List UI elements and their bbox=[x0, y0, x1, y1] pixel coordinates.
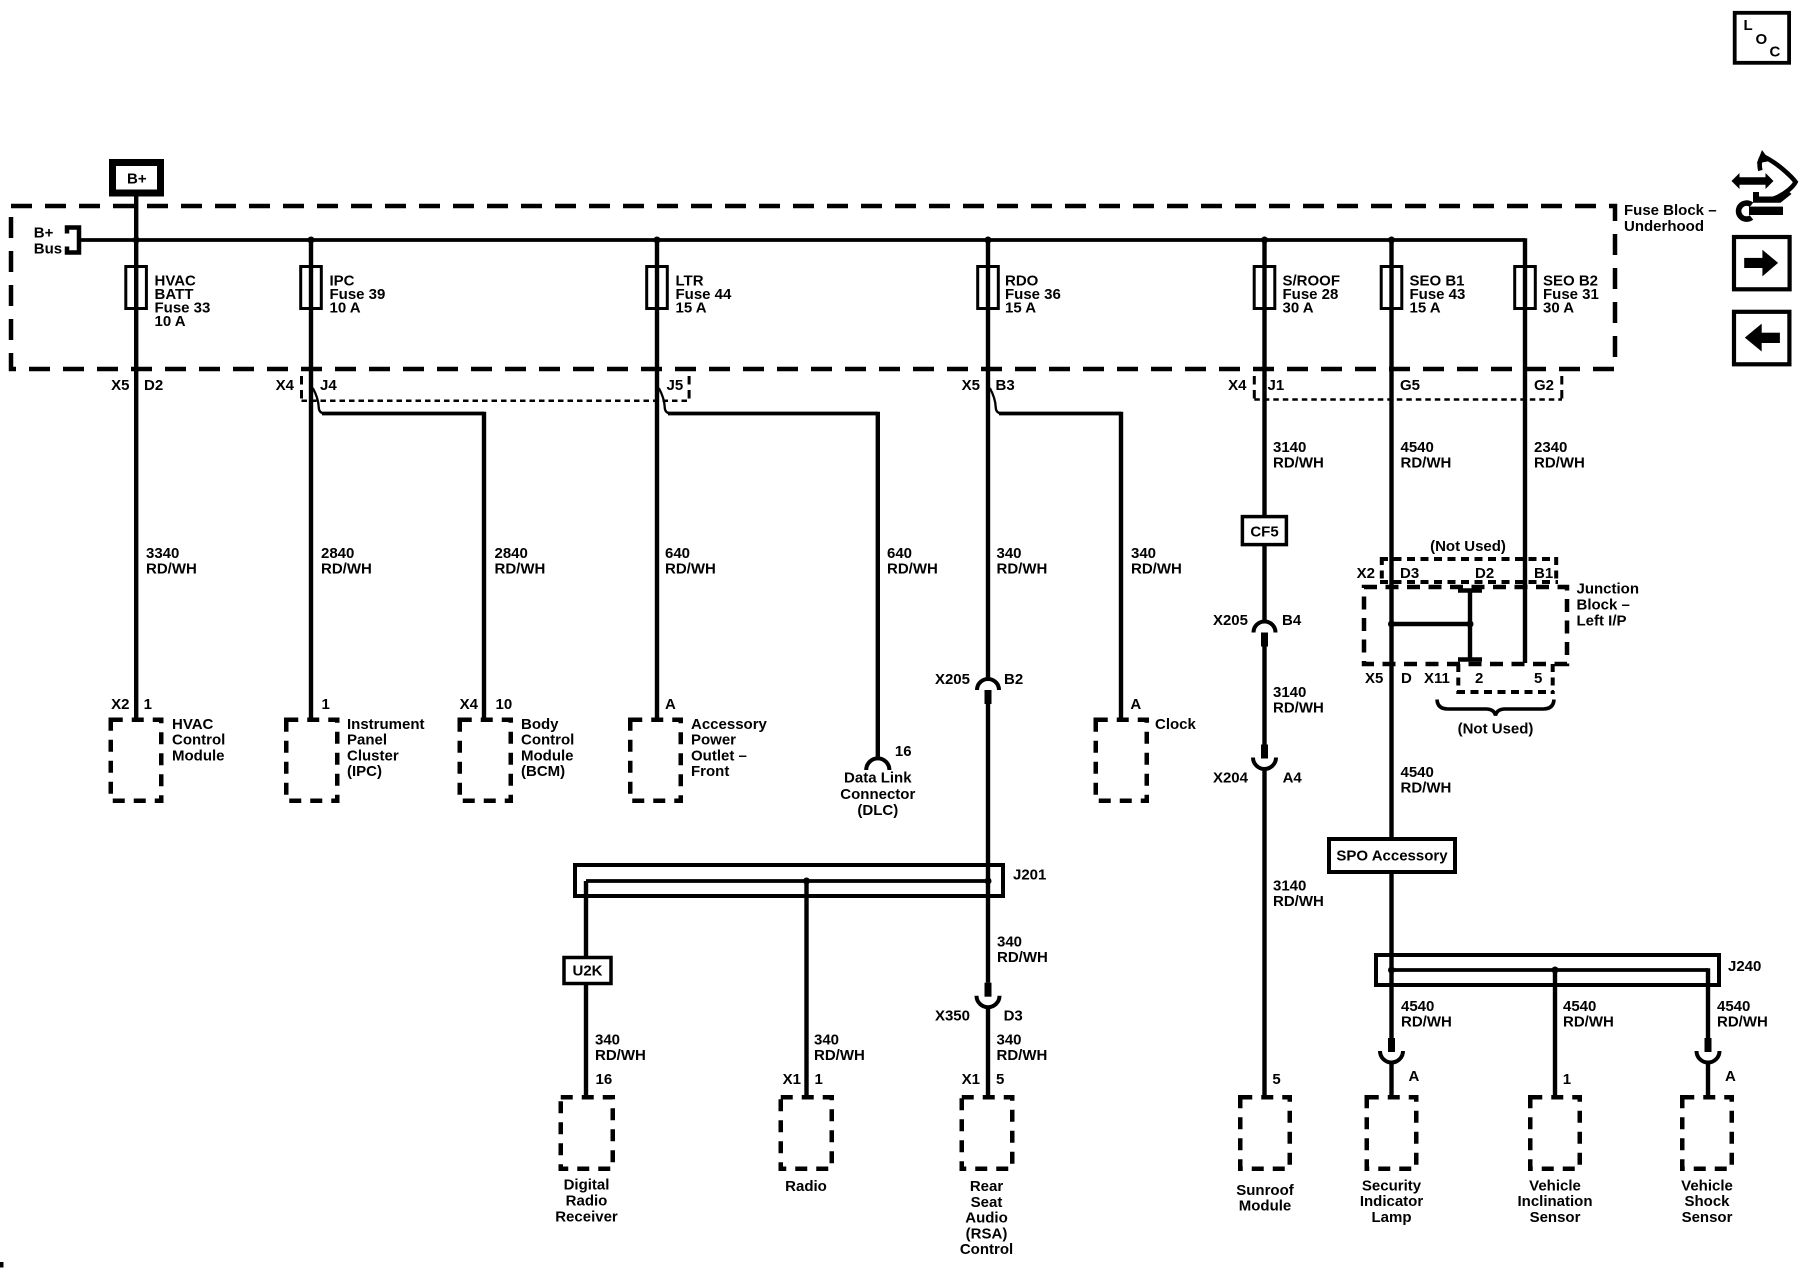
svg-text:D3: D3 bbox=[1400, 565, 1419, 582]
fuse F39 IPC bbox=[301, 267, 322, 309]
svg-text:4540: 4540 bbox=[1401, 998, 1434, 1015]
svg-text:RD/WH: RD/WH bbox=[1273, 700, 1324, 717]
splice pack J240 bbox=[1376, 955, 1761, 985]
fuse F31 SEO B2 bbox=[1515, 267, 1536, 309]
svg-text:RD/WH: RD/WH bbox=[997, 1047, 1048, 1064]
svg-text:X205: X205 bbox=[1213, 612, 1248, 629]
svg-text:Control: Control bbox=[960, 1241, 1013, 1258]
svg-text:Control: Control bbox=[521, 732, 574, 749]
svg-text:RD/WH: RD/WH bbox=[887, 561, 938, 578]
svg-text:340: 340 bbox=[814, 1032, 839, 1049]
module Vehicle Inclination Sensor bbox=[1518, 1071, 1593, 1226]
wire branch J4 to BCM bbox=[313, 388, 484, 718]
svg-text:D3: D3 bbox=[1004, 1008, 1023, 1025]
svg-text:RD/WH: RD/WH bbox=[1401, 780, 1452, 797]
svg-text:Sensor: Sensor bbox=[1682, 1209, 1733, 1226]
svg-text:3140: 3140 bbox=[1273, 684, 1306, 701]
svg-text:RD/WH: RD/WH bbox=[1717, 1014, 1768, 1031]
svg-text:2840: 2840 bbox=[321, 545, 354, 562]
svg-text:Bus: Bus bbox=[34, 241, 62, 258]
junction dot bus RDO bbox=[985, 237, 992, 244]
option box CF5 bbox=[1242, 517, 1286, 545]
svg-text:RD/WH: RD/WH bbox=[1131, 561, 1182, 578]
svg-text:10 A: 10 A bbox=[330, 300, 361, 317]
svg-text:10: 10 bbox=[496, 696, 513, 713]
wire jumper inside junction block bbox=[1388, 591, 1482, 660]
svg-text:A4: A4 bbox=[1283, 770, 1303, 787]
svg-text:Module: Module bbox=[1239, 1198, 1292, 1215]
svg-text:RD/WH: RD/WH bbox=[495, 561, 546, 578]
svg-text:X1: X1 bbox=[783, 1071, 801, 1088]
svg-text:Module: Module bbox=[521, 747, 574, 764]
svg-text:RD/WH: RD/WH bbox=[1273, 893, 1324, 910]
svg-text:RD/WH: RD/WH bbox=[1563, 1014, 1614, 1031]
fuse F33 HVAC BATT bbox=[126, 267, 147, 309]
connector X205 B4 bbox=[1213, 612, 1302, 647]
svg-text:Sunroof: Sunroof bbox=[1236, 1182, 1294, 1199]
svg-text:Front: Front bbox=[691, 763, 729, 780]
wire J201 to Radio bbox=[804, 881, 808, 1095]
svg-text:Audio: Audio bbox=[965, 1210, 1008, 1227]
svg-text:CF5: CF5 bbox=[1250, 524, 1278, 541]
wire J240 to security lamp connector bbox=[1389, 970, 1393, 1038]
svg-text:1: 1 bbox=[815, 1071, 823, 1088]
svg-text:Data Link: Data Link bbox=[844, 770, 912, 787]
svg-text:RD/WH: RD/WH bbox=[1534, 455, 1585, 472]
svg-text:A: A bbox=[665, 696, 676, 713]
wire X350 to RSA bbox=[986, 1007, 990, 1096]
svg-text:Vehicle: Vehicle bbox=[1529, 1178, 1581, 1195]
svg-text:(DLC): (DLC) bbox=[857, 802, 898, 819]
svg-text:RD/WH: RD/WH bbox=[997, 949, 1048, 966]
svg-text:J240: J240 bbox=[1728, 958, 1761, 975]
svg-text:16: 16 bbox=[895, 743, 912, 760]
junction block bottom pins X5 D X11 2 5 bbox=[1365, 664, 1554, 694]
wire to shock sensor box bbox=[1706, 1062, 1710, 1095]
svg-text:HVAC: HVAC bbox=[172, 716, 214, 733]
connector X350 D3 bbox=[935, 983, 1023, 1025]
wire IPC drop bbox=[309, 240, 313, 718]
svg-text:Connector: Connector bbox=[840, 786, 915, 803]
svg-text:Cluster: Cluster bbox=[347, 747, 399, 764]
node B+ Bus bracket bbox=[34, 225, 79, 258]
svg-text:J201: J201 bbox=[1013, 867, 1046, 884]
svg-text:RD/WH: RD/WH bbox=[1273, 455, 1324, 472]
svg-text:2340: 2340 bbox=[1534, 439, 1567, 456]
svg-text:D2: D2 bbox=[144, 377, 163, 394]
svg-text:15 A: 15 A bbox=[676, 300, 707, 317]
svg-text:B+: B+ bbox=[34, 225, 54, 242]
svg-text:SPO Accessory: SPO Accessory bbox=[1336, 848, 1448, 865]
svg-text:B+: B+ bbox=[127, 171, 147, 188]
svg-text:RD/WH: RD/WH bbox=[1401, 1014, 1452, 1031]
connector X204 A4 bbox=[1213, 745, 1302, 787]
svg-text:X2: X2 bbox=[1357, 565, 1375, 582]
svg-text:1: 1 bbox=[322, 696, 330, 713]
wire SEO B1 drop G5 bbox=[1389, 240, 1393, 839]
svg-text:(BCM): (BCM) bbox=[521, 763, 565, 780]
svg-text:X350: X350 bbox=[935, 1008, 970, 1025]
svg-text:RD/WH: RD/WH bbox=[146, 561, 197, 578]
connector A shock sensor bbox=[1697, 1038, 1737, 1085]
connector X205 B2 bbox=[935, 671, 1023, 704]
power symbol B+ bbox=[113, 163, 161, 194]
wire J201 to U2K bbox=[584, 881, 588, 958]
module Clock bbox=[1096, 696, 1197, 801]
wire branch B3 to Clock bbox=[990, 388, 1121, 718]
svg-text:RD/WH: RD/WH bbox=[1401, 455, 1452, 472]
svg-text:RD/WH: RD/WH bbox=[321, 561, 372, 578]
svg-text:5: 5 bbox=[996, 1071, 1004, 1088]
module Security Indicator Lamp bbox=[1360, 1097, 1424, 1226]
svg-text:Instrument: Instrument bbox=[347, 716, 425, 733]
module HVAC Control Module bbox=[111, 696, 226, 801]
svg-text:1: 1 bbox=[144, 696, 152, 713]
page corner mark bbox=[0, 1262, 4, 1268]
svg-text:Radio: Radio bbox=[785, 1178, 827, 1195]
junction dot bus S/ROOF bbox=[1261, 237, 1268, 244]
svg-text:RD/WH: RD/WH bbox=[814, 1047, 865, 1064]
svg-text:Digital: Digital bbox=[564, 1177, 610, 1194]
svg-text:Control: Control bbox=[172, 732, 225, 749]
svg-text:J4: J4 bbox=[320, 377, 337, 394]
fuse F36 RDO bbox=[978, 267, 999, 309]
svg-text:3140: 3140 bbox=[1273, 439, 1306, 456]
module Radio bbox=[781, 1071, 832, 1195]
svg-text:340: 340 bbox=[1131, 545, 1156, 562]
svg-text:U2K: U2K bbox=[572, 963, 602, 980]
module Body Control Module bbox=[460, 696, 575, 801]
svg-text:Module: Module bbox=[172, 747, 225, 764]
svg-text:G5: G5 bbox=[1400, 377, 1420, 394]
svg-text:Fuse Block –: Fuse Block – bbox=[1624, 202, 1717, 219]
svg-text:X4: X4 bbox=[276, 377, 295, 394]
wire B2 to J201 bbox=[986, 704, 990, 881]
inline connector strip right (J1 to G2) bbox=[1253, 376, 1564, 400]
svg-text:X4: X4 bbox=[460, 696, 479, 713]
junction block connector strip X2 D3 D2 B1 bbox=[1357, 557, 1558, 584]
svg-text:A: A bbox=[1409, 1068, 1420, 1085]
wire SPO to J240 bbox=[1389, 872, 1393, 970]
svg-text:(RSA): (RSA) bbox=[966, 1225, 1008, 1242]
fuse F43 SEO B1 bbox=[1381, 267, 1402, 309]
svg-text:Block –: Block – bbox=[1577, 597, 1630, 614]
svg-text:Underhood: Underhood bbox=[1624, 218, 1704, 235]
svg-text:Security: Security bbox=[1362, 1178, 1422, 1195]
svg-text:640: 640 bbox=[887, 545, 912, 562]
wire B+ to bus bbox=[134, 196, 138, 240]
svg-text:RD/WH: RD/WH bbox=[665, 561, 716, 578]
wire B4 to X204 bbox=[1262, 647, 1266, 745]
svg-text:B3: B3 bbox=[996, 377, 1015, 394]
svg-text:A: A bbox=[1130, 696, 1141, 713]
svg-text:4540: 4540 bbox=[1401, 439, 1434, 456]
svg-text:Receiver: Receiver bbox=[555, 1209, 618, 1226]
wire U2K to DRR bbox=[584, 984, 588, 1096]
wire S/ROOF drop bbox=[1262, 240, 1266, 517]
svg-text:Vehicle: Vehicle bbox=[1681, 1178, 1733, 1195]
icon left arrow box bbox=[1734, 312, 1789, 365]
svg-text:X5: X5 bbox=[962, 377, 980, 394]
svg-text:4540: 4540 bbox=[1401, 764, 1434, 781]
wire to Security Indicator Lamp bbox=[1389, 1062, 1393, 1095]
svg-text:Inclination: Inclination bbox=[1518, 1193, 1593, 1210]
wire HVAC drop bbox=[134, 240, 138, 718]
svg-text:5: 5 bbox=[1534, 670, 1542, 687]
svg-text:Panel: Panel bbox=[347, 732, 387, 749]
svg-text:Radio: Radio bbox=[566, 1192, 608, 1209]
wire A4 to Sunroof Module bbox=[1262, 768, 1266, 1095]
svg-text:X5: X5 bbox=[111, 377, 129, 394]
svg-text:Outlet –: Outlet – bbox=[691, 747, 747, 764]
svg-text:D: D bbox=[1401, 670, 1412, 687]
wire CF5 to X205 bbox=[1262, 545, 1266, 621]
svg-text:B1: B1 bbox=[1534, 565, 1553, 582]
svg-text:3340: 3340 bbox=[146, 545, 179, 562]
icon right arrow box bbox=[1734, 237, 1790, 289]
icon LOC box bbox=[1735, 13, 1789, 63]
svg-text:X11: X11 bbox=[1424, 670, 1450, 687]
svg-text:(Not Used): (Not Used) bbox=[1430, 538, 1506, 555]
svg-text:(Not Used): (Not Used) bbox=[1458, 721, 1534, 738]
svg-text:L: L bbox=[1744, 17, 1753, 34]
svg-text:30 A: 30 A bbox=[1283, 300, 1314, 317]
svg-text:340: 340 bbox=[997, 1032, 1022, 1049]
svg-text:(IPC): (IPC) bbox=[347, 763, 382, 780]
svg-text:2840: 2840 bbox=[495, 545, 528, 562]
svg-text:Seat: Seat bbox=[971, 1194, 1003, 1211]
svg-text:O: O bbox=[1756, 31, 1768, 48]
svg-text:X204: X204 bbox=[1213, 770, 1249, 787]
svg-text:B4: B4 bbox=[1282, 612, 1302, 629]
svg-text:2: 2 bbox=[1475, 670, 1483, 687]
svg-text:X4: X4 bbox=[1228, 377, 1247, 394]
wire J240 to Vehicle Inclination Sensor bbox=[1553, 970, 1557, 1095]
svg-text:Accessory: Accessory bbox=[691, 716, 768, 733]
svg-text:Shock: Shock bbox=[1684, 1193, 1730, 1210]
wire LTR drop bbox=[655, 240, 659, 718]
module Accessory Power Outlet Front bbox=[630, 696, 767, 801]
svg-text:15 A: 15 A bbox=[1005, 300, 1036, 317]
fuse F28 S/ROOF bbox=[1254, 267, 1275, 309]
junction block left I/P dashed box bbox=[1364, 587, 1567, 664]
wire B+ bus bar bbox=[79, 238, 1525, 242]
inline connector strip left (J4 to J5) bbox=[300, 376, 691, 401]
svg-text:Clock: Clock bbox=[1155, 716, 1197, 733]
connector DLC pin 16 half circle bbox=[866, 758, 889, 770]
svg-text:Left I/P: Left I/P bbox=[1577, 613, 1627, 630]
svg-text:G2: G2 bbox=[1534, 377, 1554, 394]
svg-text:4540: 4540 bbox=[1563, 998, 1596, 1015]
wire J240 corner to Vehicle Shock Sensor bbox=[1706, 968, 1710, 1038]
connector A security lamp bbox=[1380, 1038, 1420, 1085]
fuse F44 LTR bbox=[647, 267, 668, 309]
module Digital Radio Receiver bbox=[555, 1071, 618, 1226]
svg-text:Body: Body bbox=[521, 716, 559, 733]
svg-text:X205: X205 bbox=[935, 671, 970, 688]
svg-text:10 A: 10 A bbox=[155, 313, 186, 330]
icon navigation arrows-wrench bbox=[1732, 150, 1796, 219]
junction dot bus IPC bbox=[308, 237, 315, 244]
svg-text:4540: 4540 bbox=[1717, 998, 1750, 1015]
fuse block underhood dashed box bbox=[11, 206, 1615, 369]
svg-text:340: 340 bbox=[997, 545, 1022, 562]
svg-text:D2: D2 bbox=[1475, 565, 1494, 582]
svg-text:J5: J5 bbox=[667, 377, 684, 394]
svg-text:15 A: 15 A bbox=[1410, 300, 1441, 317]
wire branch J5 to DLC bbox=[659, 388, 878, 758]
svg-text:Sensor: Sensor bbox=[1530, 1209, 1581, 1226]
svg-text:340: 340 bbox=[997, 934, 1022, 951]
svg-text:RD/WH: RD/WH bbox=[595, 1047, 646, 1064]
SPO Accessory box bbox=[1329, 839, 1455, 872]
svg-text:16: 16 bbox=[596, 1071, 613, 1088]
junction dot bus HVAC bbox=[133, 237, 140, 244]
wire RDO drop bbox=[986, 240, 990, 678]
svg-text:340: 340 bbox=[595, 1032, 620, 1049]
svg-text:30 A: 30 A bbox=[1543, 300, 1574, 317]
svg-text:5: 5 bbox=[1272, 1071, 1280, 1088]
svg-text:Power: Power bbox=[691, 732, 736, 749]
svg-text:Rear: Rear bbox=[970, 1178, 1004, 1195]
svg-text:1: 1 bbox=[1563, 1071, 1571, 1088]
module Rear Seat Audio Control bbox=[960, 1071, 1013, 1258]
splice pack J201 bbox=[575, 865, 1046, 896]
module Sunroof Module bbox=[1236, 1071, 1294, 1215]
svg-text:Indicator: Indicator bbox=[1360, 1193, 1424, 1210]
module Instrument Panel Cluster bbox=[286, 696, 424, 801]
module Vehicle Shock Sensor bbox=[1681, 1097, 1733, 1226]
svg-text:B2: B2 bbox=[1004, 671, 1023, 688]
svg-text:C: C bbox=[1770, 44, 1781, 61]
svg-text:A: A bbox=[1725, 1068, 1736, 1085]
brace not used bbox=[1437, 700, 1554, 716]
svg-text:640: 640 bbox=[665, 545, 690, 562]
svg-text:J1: J1 bbox=[1268, 377, 1285, 394]
svg-text:X2: X2 bbox=[111, 696, 129, 713]
svg-text:X1: X1 bbox=[962, 1071, 980, 1088]
wire SEO B2 drop G2 bbox=[1523, 238, 1527, 663]
svg-text:Lamp: Lamp bbox=[1371, 1209, 1411, 1226]
U2K box bbox=[564, 958, 611, 984]
wire RSA drop below J201 bbox=[986, 881, 990, 983]
svg-text:X5: X5 bbox=[1365, 670, 1383, 687]
svg-text:3140: 3140 bbox=[1273, 878, 1306, 895]
svg-text:RD/WH: RD/WH bbox=[997, 561, 1048, 578]
svg-text:Junction: Junction bbox=[1577, 581, 1640, 598]
junction dot bus SEO B1 bbox=[1388, 237, 1395, 244]
junction dot bus LTR bbox=[654, 237, 661, 244]
